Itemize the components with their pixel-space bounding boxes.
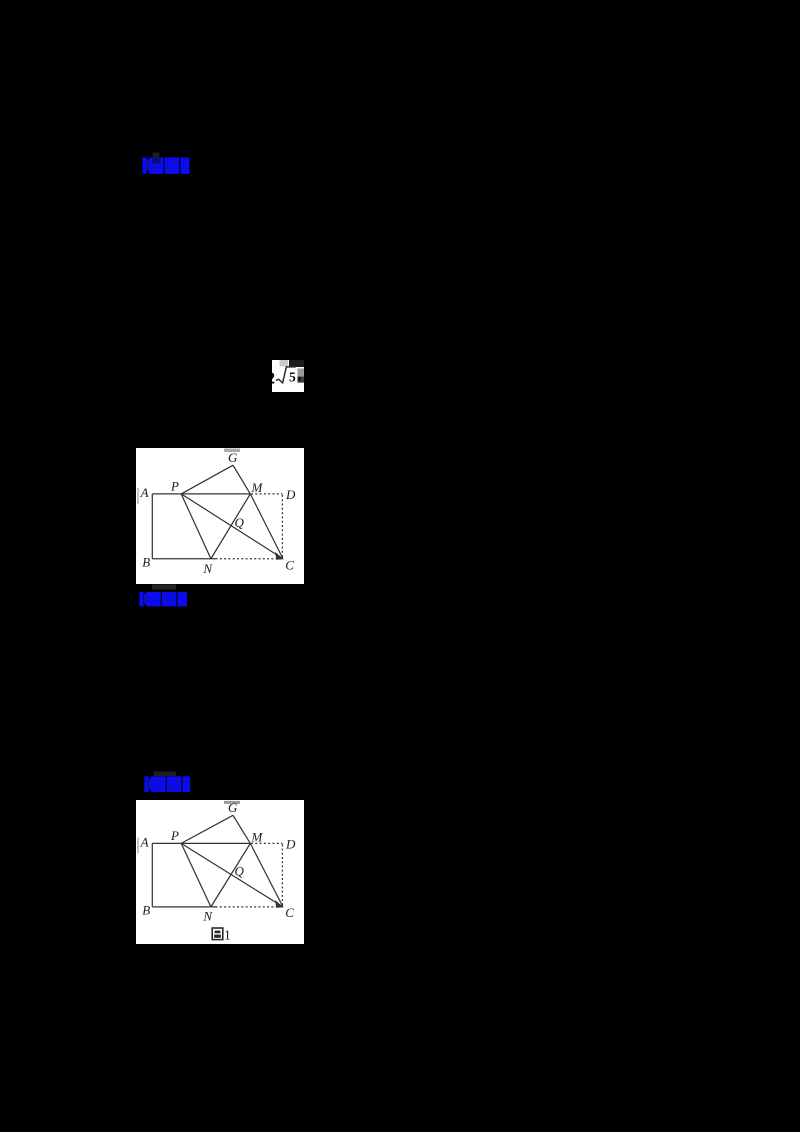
wire MN: [211, 494, 250, 559]
geometry figure 2: [136, 800, 304, 944]
wire MC: [250, 494, 283, 559]
wire AM top: [152, 493, 250, 495]
svg-text:Q: Q: [235, 515, 245, 530]
svg-text:B: B: [142, 554, 150, 569]
svg-text:A: A: [140, 835, 149, 849]
wire BN bottom: [152, 906, 215, 908]
svg-text:5: 5: [289, 369, 296, 384]
svg-text:C: C: [285, 906, 294, 920]
svg-text:N: N: [202, 561, 213, 576]
equation 2 root 5: [272, 360, 304, 392]
svg-text:N: N: [202, 910, 213, 924]
wire GM: [233, 465, 250, 494]
svg-text:M: M: [251, 480, 264, 495]
wire NC dashed: [216, 558, 284, 560]
svg-text:Q: Q: [235, 865, 245, 879]
wire PC: [181, 494, 283, 559]
node C arrowhead: [275, 552, 283, 560]
svg-text:G: G: [228, 450, 238, 465]
caption tu1: [212, 928, 231, 943]
blue section label 2: [136, 583, 200, 611]
edge tick: [137, 838, 139, 854]
wire BN bottom: [152, 558, 215, 560]
wire PG: [181, 465, 233, 494]
svg-text:2: 2: [272, 368, 275, 387]
svg-text:M: M: [250, 831, 263, 845]
wire PG: [181, 815, 233, 843]
wire MD dashed: [251, 842, 283, 844]
svg-text:G: G: [228, 801, 238, 815]
wire MC: [250, 843, 283, 906]
wire DC dashed: [281, 495, 283, 559]
svg-text:P: P: [170, 478, 179, 493]
svg-text:D: D: [285, 487, 296, 502]
wire AB left: [151, 843, 153, 906]
svg-text:D: D: [285, 837, 296, 851]
svg-text:C: C: [285, 557, 294, 572]
gray smudge above G: [224, 449, 240, 453]
svg-text:1: 1: [224, 928, 231, 943]
blue section label 3: [140, 768, 204, 796]
edge tick: [137, 488, 139, 504]
wire PN: [181, 843, 211, 906]
node C arrowhead: [275, 900, 283, 908]
gray smudge above G: [224, 801, 240, 804]
wire PN: [181, 494, 211, 559]
svg-text:B: B: [142, 903, 150, 917]
geometry figure 1: [136, 448, 304, 584]
wire GM: [233, 815, 250, 843]
wire DC dashed: [281, 844, 283, 906]
wire NC dashed: [216, 906, 284, 908]
blue section label 1: [136, 150, 200, 178]
wire MN: [211, 843, 250, 906]
wire MD dashed: [251, 493, 283, 495]
wire AM top: [152, 842, 250, 844]
wire PC: [181, 843, 283, 906]
svg-text:A: A: [140, 485, 149, 500]
wire AB left: [151, 494, 153, 559]
svg-text:P: P: [170, 829, 179, 843]
